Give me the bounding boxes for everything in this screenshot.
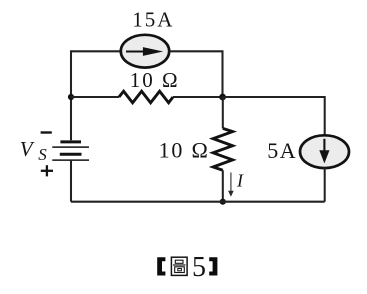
current arrow I (downward) xyxy=(228,173,234,197)
svg-text:V: V xyxy=(20,137,35,161)
svg-text:10 Ω: 10 Ω xyxy=(130,68,180,92)
current source U2 5A (ellipse with down arrow) xyxy=(300,135,349,168)
node A junction dot (left, Vs top net) xyxy=(68,94,74,100)
battery V1 Vs plates xyxy=(52,142,89,160)
svg-text:S: S xyxy=(38,145,47,164)
current source U1 15A (ellipse with right arrow) xyxy=(121,35,169,68)
wire top-left segment and left vertical down to battery xyxy=(71,51,121,140)
caption glyph tu (figure) xyxy=(171,257,187,275)
label plus sign of Vs xyxy=(41,165,53,176)
wire top-right segment down to node B xyxy=(169,51,222,97)
wire from node B down to R2 xyxy=(222,97,224,128)
wire middle-left segment xyxy=(71,96,119,98)
wire from battery bottom to bottom net xyxy=(70,160,72,202)
wire from 5A source down to bottom net xyxy=(324,168,326,202)
node C junction dot (bottom) xyxy=(220,199,226,205)
resistor R2 10 ohm vertical zigzag xyxy=(213,128,233,170)
svg-text:15A: 15A xyxy=(132,8,174,32)
node B junction dot (middle) xyxy=(219,94,226,101)
svg-text:5: 5 xyxy=(192,252,206,283)
label minus sign of Vs xyxy=(41,131,52,133)
svg-text:5A: 5A xyxy=(267,138,297,163)
wire from R2 down to node C xyxy=(222,170,224,201)
caption opening bracket xyxy=(157,257,165,275)
resistor R1 10 ohm horizontal zigzag xyxy=(119,91,173,103)
wire middle segment between R1 and node B xyxy=(173,96,223,98)
caption closing bracket xyxy=(209,257,217,275)
wire middle-right segment and right vertical down to 5A source xyxy=(223,97,325,136)
label Vs xyxy=(20,137,48,164)
svg-text:I: I xyxy=(236,170,244,190)
wire bottom net xyxy=(71,201,325,203)
svg-text:10 Ω: 10 Ω xyxy=(159,138,210,163)
